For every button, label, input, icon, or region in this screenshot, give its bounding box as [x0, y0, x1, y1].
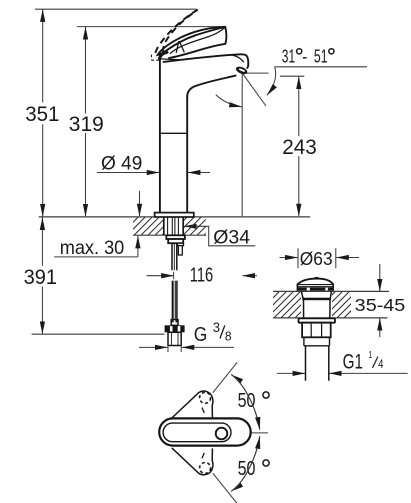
svg-text:31: 31 — [282, 45, 295, 66]
svg-text:351: 351 — [25, 103, 59, 126]
svg-text:51: 51 — [314, 45, 328, 66]
svg-text:-: - — [302, 45, 307, 66]
svg-text:3: 3 — [213, 320, 220, 335]
svg-text:8: 8 — [225, 330, 232, 344]
svg-text:max. 30: max. 30 — [60, 237, 125, 259]
svg-text:1: 1 — [369, 349, 373, 361]
svg-text:4: 4 — [378, 357, 384, 371]
svg-text:35-45: 35-45 — [355, 295, 406, 315]
svg-text:Ø34: Ø34 — [213, 228, 250, 249]
svg-text:Ø63: Ø63 — [300, 248, 333, 269]
svg-text:319: 319 — [69, 112, 104, 136]
svg-text:243: 243 — [282, 135, 317, 159]
svg-text:391: 391 — [24, 264, 57, 289]
svg-text:G1: G1 — [343, 348, 363, 373]
svg-text:G: G — [194, 324, 208, 346]
svg-text:Ø 49: Ø 49 — [101, 153, 142, 174]
svg-text:116: 116 — [190, 265, 213, 287]
